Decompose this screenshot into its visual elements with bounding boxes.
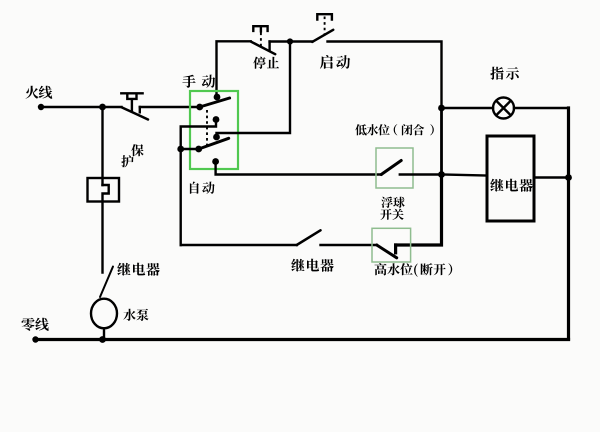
wire neutral line 零线 horizontal xyxy=(36,338,569,341)
switch FR protection NC contact arm xyxy=(122,107,149,119)
switch SB1 right fixed tick xyxy=(268,42,270,50)
switch SB2 start button 启动 NO arm xyxy=(312,30,333,42)
node junction at protection branch xyxy=(99,104,106,111)
wire start to right corner and down xyxy=(328,42,442,109)
label huoxian 火线 xyxy=(25,86,52,99)
switch high water right tick xyxy=(394,245,397,253)
wire pole2 upper contact to stop/start junction xyxy=(217,42,291,138)
selector pole2 arm xyxy=(199,138,229,149)
wire top rail from selector corner xyxy=(217,41,251,96)
switch high water level 高水位 open arm xyxy=(377,245,397,258)
switch FR right fixed contact tick xyxy=(139,107,141,112)
label jidianqi left 继电器 xyxy=(117,263,159,276)
wire vertical to thermal element xyxy=(101,107,103,185)
wire lamp junction down to float junction xyxy=(440,108,443,175)
label zidong 自动 xyxy=(190,182,215,194)
label dishuiwei 低水位（闭合） xyxy=(355,124,434,135)
selector green box 手动/自动 xyxy=(190,91,238,169)
node 火线 terminal dot xyxy=(38,104,44,110)
wire right side vertical xyxy=(567,108,570,339)
selector pole1 arm xyxy=(200,98,230,107)
label jidianqi relay box 继电器 xyxy=(490,179,532,192)
node 零线 terminal dot xyxy=(32,336,38,342)
high water level green box xyxy=(372,228,411,262)
wire relay coil right lead xyxy=(534,176,569,178)
label fuqiu 浮球 xyxy=(381,197,405,208)
switch SB2 dashed stem xyxy=(324,17,326,36)
label qidong 启动 xyxy=(320,55,350,69)
switch KM relay contact (pump circuit, open) xyxy=(100,267,113,298)
wire selector common down to relay branch xyxy=(179,149,181,245)
wire lamp branch horizontal xyxy=(442,107,494,109)
label gaoshuiwei 高水位(断开) xyxy=(375,263,453,277)
motor pump 水泵 circle xyxy=(91,299,117,329)
selector pole2 lower fixed dot 自动 xyxy=(212,158,219,165)
selector mechanical link dashed xyxy=(206,110,208,146)
node pole2 common junction dot xyxy=(177,146,184,153)
node relay box right junction dot xyxy=(565,174,572,181)
wire live line 火线 horizontal xyxy=(41,106,122,108)
node float branch junction dot xyxy=(438,171,445,178)
label lingxian 零线 xyxy=(21,318,48,331)
node top rail junction dot xyxy=(287,38,293,44)
label baohu 保护 xyxy=(121,144,144,167)
wire pole1 lower contact to pole2 common xyxy=(181,120,216,150)
low water level float green box xyxy=(376,148,413,188)
wire common to pole2 left dot xyxy=(181,148,199,150)
switch float 低水位 arm xyxy=(381,161,401,175)
wire relay coil left lead xyxy=(442,175,488,176)
switch SB1 dashed stem xyxy=(260,33,262,47)
selector pole1 lower fixed dot xyxy=(213,116,220,123)
thermal overload element 保护 box xyxy=(88,178,120,202)
lamp indicator 指示 circle with X xyxy=(493,98,514,119)
selector pole1 left dot xyxy=(196,104,203,111)
wire pump bottom lead xyxy=(103,328,105,339)
wire relay contact to high level switch xyxy=(321,244,377,246)
switch SB1 cap xyxy=(253,26,267,31)
label jidianqi mid 继电器 xyxy=(291,259,333,272)
selector pole1 fixed top dot xyxy=(214,94,221,101)
node pump junction dot xyxy=(99,336,106,343)
relay coil box 继电器 xyxy=(487,136,534,221)
selector pole2 left dot xyxy=(195,146,202,153)
wire between stop and start xyxy=(270,40,313,42)
label shuibeng 水泵 xyxy=(123,309,148,321)
switch SB1 stop button 停止 NC arm xyxy=(251,42,276,55)
label kaiguan 开关 xyxy=(380,209,403,220)
switch SB2 cap xyxy=(317,14,332,19)
wire float switch right to relay coil xyxy=(400,173,442,175)
wire lamp to right vertical xyxy=(514,107,569,109)
label tingzhi 停止 xyxy=(253,57,279,69)
wire float junction down to high-water branch xyxy=(396,175,442,246)
selector pole2 upper fixed dot xyxy=(213,134,220,141)
node lamp branch junction dot xyxy=(438,105,445,112)
wire relay branch bottom horizontal left part xyxy=(181,244,297,246)
switch FR actuator cap xyxy=(121,93,142,111)
switch KM relay contact (latch branch) arm xyxy=(297,230,321,245)
wire auto contact down to float switch xyxy=(216,162,382,175)
thermal element jog xyxy=(103,185,109,273)
label zhishi 指示 xyxy=(490,67,519,80)
wire from FR contact to selector xyxy=(140,106,200,108)
label shoudong 手动 xyxy=(182,75,215,88)
